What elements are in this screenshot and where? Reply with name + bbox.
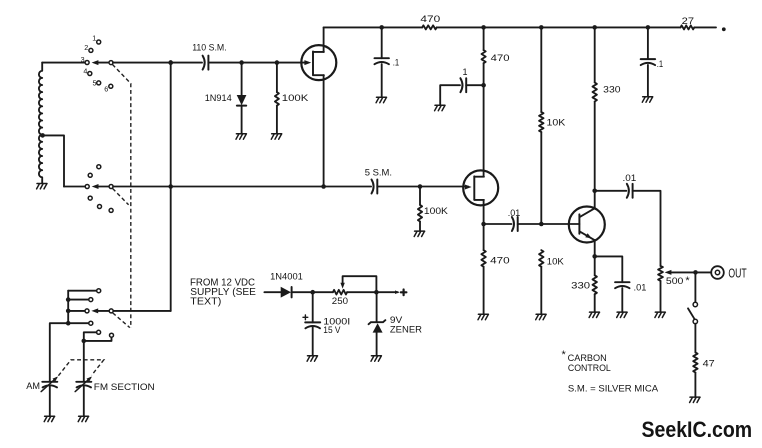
ground C2 xyxy=(376,97,386,102)
resistor R7 330 xyxy=(593,83,597,102)
switch S1b pivot xyxy=(109,185,113,189)
svg-text:330: 330 xyxy=(571,281,590,292)
svg-text:*: * xyxy=(685,275,690,287)
label plus xyxy=(303,315,308,320)
wire C1 to Q1 gate xyxy=(208,62,308,64)
wire S1c wiper shaft xyxy=(96,310,111,312)
capacitor C8 .01 xyxy=(615,281,629,283)
node supply plus out xyxy=(401,290,407,296)
wire collector to C7 xyxy=(595,190,627,192)
wire R6 top xyxy=(483,224,485,250)
node S1c b3 xyxy=(66,309,71,314)
svg-text:.1: .1 xyxy=(657,59,663,69)
wire gang S1b dashed xyxy=(113,189,129,205)
resistor R1 100K xyxy=(275,92,279,106)
svg-text:500: 500 xyxy=(666,276,684,287)
capacitor C5 .01 xyxy=(512,217,514,231)
wire C8 bottom xyxy=(621,288,623,312)
ground R8 xyxy=(536,314,546,319)
wire R7 top xyxy=(594,27,596,82)
node R1 junction xyxy=(275,60,280,65)
wire Q1 source down xyxy=(323,75,325,186)
svg-text:1N4001: 1N4001 xyxy=(270,272,303,283)
wire Q3 collector xyxy=(594,191,596,209)
wire Q1 drain to rail xyxy=(323,27,325,52)
wire emitter to C8 xyxy=(595,256,623,282)
wire switch to R11 xyxy=(694,324,696,353)
switch S1c pivot xyxy=(109,309,113,313)
wire S1b line xyxy=(64,186,85,188)
wire D3 top xyxy=(376,292,378,322)
switch S1a contact 1 xyxy=(97,40,101,44)
wire node to R12 xyxy=(313,291,333,293)
svg-text:6: 6 xyxy=(104,85,108,94)
svg-text:470: 470 xyxy=(420,14,440,25)
switch S1b contact a xyxy=(97,165,101,169)
switch S1c wiper arrow xyxy=(91,308,98,313)
wire rheostat loop xyxy=(343,276,377,292)
node bus at S1b xyxy=(168,184,173,189)
svg-text:ZENER: ZENER xyxy=(390,325,422,336)
wire C3 left to ground xyxy=(440,85,460,105)
capacitor C3 1 xyxy=(460,78,462,92)
wire wiper to OUT xyxy=(670,271,712,273)
ground R6 xyxy=(478,314,488,319)
switch S1b contact d xyxy=(88,196,92,200)
svg-text:.01: .01 xyxy=(508,208,521,219)
switch S2 contact bottom xyxy=(693,319,697,323)
resistor R12 250 rheostat xyxy=(333,290,347,295)
switch S1d contact 1 xyxy=(97,330,101,334)
ground C8 xyxy=(617,312,627,317)
switch S2 contact top xyxy=(693,302,697,306)
wire base xyxy=(541,223,579,225)
wire pot bottom xyxy=(660,281,662,312)
wire supply in xyxy=(264,291,280,293)
wire AM cap bottom xyxy=(49,386,51,416)
ground D3 xyxy=(371,356,381,361)
svg-text:4: 4 xyxy=(83,66,87,75)
wire top rail mid xyxy=(437,26,681,28)
resistor R6 470 xyxy=(481,250,485,267)
svg-text:TEXT): TEXT) xyxy=(190,297,221,308)
switch S1a contact 3 xyxy=(85,61,89,65)
wire R10 bottom xyxy=(594,294,596,312)
wire S1d to FM cap xyxy=(83,341,85,382)
ground pot xyxy=(655,312,665,317)
wire C4 to Q2 gate xyxy=(377,186,468,188)
wire R5 bottom xyxy=(540,132,542,224)
svg-text:100K: 100K xyxy=(282,93,309,104)
transistor Q1 FET xyxy=(304,60,311,65)
wire coil-top to switch contact 3 xyxy=(42,62,85,64)
svg-text:10K: 10K xyxy=(547,118,567,129)
diode D2 1N4001 xyxy=(281,287,291,298)
wire R4 top xyxy=(419,187,421,205)
node S1d common xyxy=(82,339,87,344)
wire coil tap to switch S1b xyxy=(43,135,64,186)
wire S1c branch 2 xyxy=(68,299,89,301)
wire C6 top xyxy=(647,27,649,59)
ground D1 xyxy=(236,134,246,139)
diode D3 zener 9V xyxy=(369,320,386,324)
wire S1c branch 3 xyxy=(68,310,85,312)
svg-text:5: 5 xyxy=(93,79,97,88)
resistor R4 100K xyxy=(418,205,422,222)
switch S1b contact f xyxy=(109,208,113,212)
svg-text:AM: AM xyxy=(26,381,40,392)
node coil tap xyxy=(40,133,45,138)
wire supply out xyxy=(376,291,397,293)
capacitor C6 .1 xyxy=(641,58,655,60)
switch S1c contact 3 xyxy=(85,309,89,313)
switch S1b wiper arrow xyxy=(92,184,99,189)
node Q2 source xyxy=(481,222,486,227)
switch S1b contact c xyxy=(85,185,89,189)
svg-text:3: 3 xyxy=(81,55,85,64)
wire emitter to R10 xyxy=(594,256,596,275)
svg-text:5 S.M.: 5 S.M. xyxy=(365,168,392,179)
svg-text:2: 2 xyxy=(84,43,88,52)
svg-text:250: 250 xyxy=(332,296,348,307)
svg-text:10K: 10K xyxy=(547,256,565,267)
svg-text:.01: .01 xyxy=(623,173,637,184)
wire R1 bottom xyxy=(276,106,278,134)
coil L1 xyxy=(39,63,42,183)
resistor R2 470 xyxy=(422,25,437,29)
svg-text:27: 27 xyxy=(682,16,694,27)
node Q1 source at line xyxy=(321,184,326,189)
node R4 junction xyxy=(418,184,423,189)
wire top rail right end xyxy=(694,26,716,28)
svg-text:SeekIC.com: SeekIC.com xyxy=(642,417,753,442)
switch S1a wiper arrow xyxy=(92,60,99,65)
switch S1a pivot xyxy=(109,61,113,65)
node C9 xyxy=(310,290,315,295)
wire S1c branch 1 xyxy=(68,290,96,292)
resistor R5 10K xyxy=(539,112,543,132)
wire R6 bottom xyxy=(483,267,485,314)
wire C2 top xyxy=(381,27,383,58)
capacitor FM variable xyxy=(76,381,91,383)
ground R4 xyxy=(414,231,424,236)
svg-text:15 V: 15 V xyxy=(323,325,341,336)
wire gang line dashed xyxy=(112,64,130,327)
ground C9 xyxy=(307,356,317,361)
potentiometer VR2 500 xyxy=(658,266,663,281)
wire C5 to divider xyxy=(518,223,542,225)
ground AM xyxy=(44,416,54,421)
resistor R10 330 xyxy=(593,275,597,294)
switch S1c contact 2 xyxy=(89,298,93,302)
wire S1d c2 to node xyxy=(86,337,111,341)
switch S1c contact 4 xyxy=(89,321,93,325)
ground R1 xyxy=(271,134,281,139)
node rail R3 xyxy=(481,25,486,30)
switch S1a contact 6 xyxy=(109,84,113,88)
resistor R8 10K xyxy=(539,250,543,267)
node divider xyxy=(539,222,544,227)
wire R3 bottom to node xyxy=(483,63,485,85)
wire R5 top xyxy=(540,27,542,112)
ground coil xyxy=(37,184,47,189)
svg-text:CARBON: CARBON xyxy=(568,353,607,363)
transistor Q3 xyxy=(569,207,605,243)
wire S1a pivot to C1 xyxy=(113,62,202,64)
capacitor C9 1000 15V xyxy=(305,321,320,323)
wire R7 bottom xyxy=(594,102,596,191)
svg-text:470: 470 xyxy=(491,53,510,64)
node zener xyxy=(374,290,379,295)
wire R3 top xyxy=(483,27,485,50)
wire node to switch xyxy=(694,272,696,302)
wire D1 bottom xyxy=(241,106,243,134)
wire R11 bottom xyxy=(694,373,696,397)
wire R12 to zener node xyxy=(347,291,376,293)
capacitor C7 .01 xyxy=(627,184,629,198)
resistor R11 47 xyxy=(693,352,697,372)
svg-text:OUT: OUT xyxy=(728,266,747,280)
ground R11 xyxy=(690,397,700,402)
wire vertical bus xyxy=(170,63,172,311)
wire D1 top xyxy=(241,63,243,95)
svg-text:1: 1 xyxy=(92,33,96,42)
svg-text:330: 330 xyxy=(603,85,620,96)
wire S1b to C4 xyxy=(113,186,371,188)
node rail C2 xyxy=(379,25,384,30)
wire C9 bottom xyxy=(312,327,314,356)
switch S1a contact 5 xyxy=(97,81,101,85)
node S1c b4 xyxy=(66,321,71,326)
svg-text:FM SECTION: FM SECTION xyxy=(94,382,155,393)
wire FM cap bottom xyxy=(83,386,85,416)
switch S1d contact 2 xyxy=(110,333,114,337)
node vertical bus top xyxy=(168,60,173,65)
wire S1c wiper to bus xyxy=(113,310,170,312)
capacitor C2 .1 xyxy=(375,57,389,59)
diode D1 1N914 xyxy=(237,95,247,105)
capacitor C1 110 S.M. xyxy=(203,56,205,70)
wire D2 to C9 node xyxy=(292,291,313,293)
wire C7 to pot xyxy=(633,191,661,266)
svg-text:.1: .1 xyxy=(393,57,399,67)
node rail R7 xyxy=(592,25,597,30)
wire R1 top xyxy=(276,63,278,93)
resistor R3 470 xyxy=(482,50,486,63)
switch S1b contact b xyxy=(88,173,92,177)
node input junction xyxy=(168,60,173,65)
wire C6 bottom xyxy=(647,65,649,97)
node output xyxy=(693,270,698,275)
svg-text:1: 1 xyxy=(463,67,468,77)
node supply plus xyxy=(722,27,726,31)
svg-text:*: * xyxy=(562,349,567,361)
wire S1c branch 4 xyxy=(68,322,89,324)
wire S1c to AM cap xyxy=(50,323,68,382)
wire D3 bottom xyxy=(376,333,378,356)
wire S1b wiper shaft xyxy=(97,186,112,188)
pot wiper arrow xyxy=(665,270,672,275)
rheostat wiper arrow xyxy=(340,283,344,289)
resistor R9 27 xyxy=(681,25,695,29)
transistor Q2 FET xyxy=(465,185,472,190)
wire C2 bottom xyxy=(381,64,383,97)
wire R8 bottom xyxy=(540,267,542,314)
wire C9 top xyxy=(312,292,314,322)
svg-text:.01: .01 xyxy=(634,282,647,293)
wire S1d c1 to node xyxy=(84,332,97,338)
svg-text:S.M. = SILVER MICA: S.M. = SILVER MICA xyxy=(568,383,658,393)
node D1 junction xyxy=(239,60,244,65)
node rail R5 xyxy=(539,25,544,30)
node S1c b2 xyxy=(66,297,71,302)
svg-text:1N914: 1N914 xyxy=(205,93,232,104)
switch S1a contact 2 xyxy=(89,48,93,52)
ground C6 xyxy=(642,97,652,102)
wire node to Q2 drain xyxy=(483,85,485,176)
terminal OUT xyxy=(711,266,724,279)
node Q2 drain xyxy=(481,83,486,88)
switch S1a contact 4 xyxy=(88,72,92,76)
ground FM xyxy=(78,416,88,421)
svg-text:110 S.M.: 110 S.M. xyxy=(192,43,227,54)
wire gang caps dashed xyxy=(58,360,103,376)
wire gang S1c dashed xyxy=(113,313,130,328)
wire R4 bottom xyxy=(419,222,421,231)
node emitter xyxy=(592,254,597,259)
svg-text:47: 47 xyxy=(703,359,715,370)
switch S2 blade xyxy=(688,308,695,319)
svg-text:CONTROL: CONTROL xyxy=(568,363,611,373)
ground R10 xyxy=(589,312,599,317)
node rail C6 xyxy=(646,25,651,30)
wire Q2 source down xyxy=(483,200,485,224)
wire source node to C5 xyxy=(484,223,512,225)
svg-text:470: 470 xyxy=(490,255,510,266)
wire S1c bus xyxy=(67,291,69,324)
ground C3 xyxy=(435,105,445,110)
node collector xyxy=(592,189,597,194)
wire C3 right xyxy=(466,84,483,86)
capacitor C4 5 S.M. xyxy=(372,180,374,194)
wire Q3 emitter xyxy=(594,240,596,256)
svg-text:100K: 100K xyxy=(424,206,449,217)
wire S1a wiper shaft xyxy=(97,62,112,64)
wire top rail left xyxy=(324,26,423,28)
switch S1b contact e xyxy=(98,205,102,209)
switch S1c contact 1 xyxy=(97,289,101,293)
capacitor AM variable xyxy=(42,381,57,383)
